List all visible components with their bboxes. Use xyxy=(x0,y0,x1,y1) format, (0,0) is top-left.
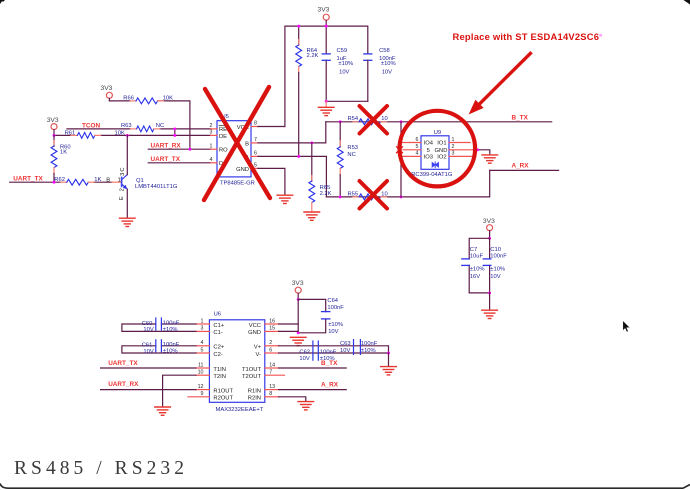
wire 3V3 vertical to GND row xyxy=(297,299,299,332)
junction C7/C10 bottom xyxy=(488,291,491,294)
wire R66 row xyxy=(109,101,189,149)
svg-text:V-: V- xyxy=(256,352,262,358)
svg-text:Q1: Q1 xyxy=(136,178,144,184)
junction A/R64 xyxy=(297,155,300,158)
wire R1IN xyxy=(279,389,347,391)
svg-text:NC: NC xyxy=(156,123,164,129)
svg-text:7: 7 xyxy=(254,137,257,143)
svg-text:C60: C60 xyxy=(142,321,153,327)
svg-text:±10%: ±10% xyxy=(338,61,353,67)
wire T1OUT xyxy=(279,367,347,369)
svg-text:15: 15 xyxy=(269,326,275,332)
stray junction dot right edge xyxy=(599,34,602,37)
svg-text:V+: V+ xyxy=(254,345,262,351)
svg-text:100nF: 100nF xyxy=(327,305,344,311)
wire R64 branch vertical xyxy=(298,26,300,44)
pin 9 U6 xyxy=(188,391,209,397)
svg-text:C2-: C2- xyxy=(213,352,222,358)
wire B row (pin7) xyxy=(258,122,326,143)
resistor R53 NC xyxy=(337,122,358,197)
wire R64 tail down to node A row xyxy=(298,73,300,157)
svg-text:A_RX: A_RX xyxy=(321,382,339,389)
svg-text:R63: R63 xyxy=(121,123,132,129)
svg-text:B_TX: B_TX xyxy=(512,114,529,121)
pin 6 U9 xyxy=(401,137,421,143)
svg-text:10uF: 10uF xyxy=(470,254,484,260)
pin 7 U5 xyxy=(251,137,258,143)
junction rail/ground xyxy=(325,100,328,103)
power 3V3 (R60/R61) xyxy=(47,117,59,136)
svg-text:R2IN: R2IN xyxy=(248,396,261,402)
ground under R65 xyxy=(304,212,320,220)
junction B_TX/U9 column xyxy=(400,120,403,123)
wire V- row xyxy=(279,352,389,354)
svg-text:R53: R53 xyxy=(347,145,358,151)
svg-text:IO1: IO1 xyxy=(437,141,446,147)
pin 13 U6 xyxy=(265,384,279,390)
svg-text:5: 5 xyxy=(427,148,430,154)
svg-text:B_TX: B_TX xyxy=(321,360,338,367)
markup red circle around U9 xyxy=(400,111,476,187)
svg-text:IO2: IO2 xyxy=(437,155,446,161)
wire Q1 collector riser xyxy=(126,135,128,174)
svg-text:R66: R66 xyxy=(123,96,134,102)
svg-text:C10: C10 xyxy=(490,247,501,253)
svg-text:3: 3 xyxy=(201,326,204,332)
svg-text:3V3: 3V3 xyxy=(47,117,59,124)
svg-text:10V: 10V xyxy=(143,349,153,355)
pin 1 U6 xyxy=(196,318,209,324)
wire V- to ground xyxy=(388,353,390,365)
svg-text:B: B xyxy=(245,141,249,147)
capacitor C61 100nF loop xyxy=(122,340,196,355)
wire C10 branch xyxy=(489,238,491,293)
wire C59 branch xyxy=(325,26,327,101)
wire A row (pin6) xyxy=(258,156,326,197)
svg-text:UART_TX: UART_TX xyxy=(108,360,138,367)
svg-text:A_RX: A_RX xyxy=(512,163,530,170)
junction C7/C10 top xyxy=(488,237,491,240)
svg-text:C61: C61 xyxy=(142,343,153,349)
pin 10 U6 xyxy=(196,370,209,376)
svg-text:1: 1 xyxy=(118,177,121,183)
svg-text:100nF: 100nF xyxy=(320,349,337,355)
svg-text:1: 1 xyxy=(201,318,204,324)
svg-text:GND: GND xyxy=(248,330,261,336)
svg-text:3V3: 3V3 xyxy=(101,85,113,92)
pin 5 U5 xyxy=(251,163,258,169)
wire UART_RX row xyxy=(148,148,210,150)
svg-text:UART_RX: UART_RX xyxy=(151,142,182,149)
svg-text:10V: 10V xyxy=(328,329,338,335)
svg-text:VCC: VCC xyxy=(249,323,261,329)
svg-text:2.2K: 2.2K xyxy=(307,53,319,59)
wire bottom rail C59-C58 xyxy=(326,100,368,102)
wire RE-DE tie xyxy=(174,129,176,136)
pin 2 U6 xyxy=(265,340,279,346)
svg-text:10: 10 xyxy=(381,116,387,122)
capacitor C60 100nF loop xyxy=(122,318,196,333)
wire UART_TX row to Q1 base xyxy=(10,181,112,183)
ground under U6 VCC rail xyxy=(290,337,306,345)
wire UART_RX to R1OUT xyxy=(101,389,196,391)
junction R55/R53 xyxy=(339,195,342,198)
svg-text:10V: 10V xyxy=(490,274,500,280)
pin 16 U6 xyxy=(265,318,279,324)
svg-text:T2IN: T2IN xyxy=(213,374,226,380)
wire U6 VCC to 3V3 xyxy=(279,323,299,325)
svg-text:IO3: IO3 xyxy=(424,155,433,161)
svg-text:10: 10 xyxy=(198,370,204,376)
ground near U9 xyxy=(482,155,498,163)
markup red arrow xyxy=(469,52,532,114)
svg-text:C1+: C1+ xyxy=(213,323,224,329)
svg-text:11: 11 xyxy=(198,362,204,368)
svg-text:2: 2 xyxy=(120,188,126,191)
svg-text:RS485 / RS232: RS485 / RS232 xyxy=(14,458,188,479)
junction tie RE xyxy=(173,127,176,130)
wire UART_TX to T1IN xyxy=(101,367,196,369)
capacitor C7 10uF xyxy=(462,247,485,280)
svg-text:C62: C62 xyxy=(299,349,310,355)
pin 1 U5 xyxy=(210,143,217,149)
pin 1 U9 xyxy=(449,137,470,143)
pin 2 U5 xyxy=(210,123,217,129)
svg-text:±10%: ±10% xyxy=(163,349,178,355)
wire DE row (R61) xyxy=(54,134,211,136)
svg-text:±10%: ±10% xyxy=(490,267,505,273)
wire UART_TX row to pin 4 xyxy=(148,162,210,164)
svg-text:TCON: TCON xyxy=(82,122,100,129)
node TCON / wire RE row xyxy=(67,122,211,129)
junction UART_TX/R60 xyxy=(53,181,56,184)
svg-text:3: 3 xyxy=(210,130,213,136)
svg-text:C1-: C1- xyxy=(213,330,222,336)
svg-text:T2OUT: T2OUT xyxy=(242,374,261,380)
pin 3 U6 xyxy=(196,326,209,332)
resistor R61 10K xyxy=(65,130,125,138)
corner mark top-right xyxy=(684,0,690,5)
wire B_TX row xyxy=(326,121,552,123)
junction U9 pin2 xyxy=(476,148,479,151)
svg-text:9: 9 xyxy=(201,391,204,397)
svg-text:10V: 10V xyxy=(382,69,392,75)
svg-text:UART_TX: UART_TX xyxy=(13,175,43,182)
svg-text:12: 12 xyxy=(198,384,204,390)
wire C7 branch xyxy=(469,238,489,293)
svg-text:3V3: 3V3 xyxy=(318,7,330,14)
svg-text:R1OUT: R1OUT xyxy=(213,388,233,394)
power 3V3 (R66 pull-up) xyxy=(101,85,113,101)
pin 6 U6 xyxy=(265,347,279,353)
svg-text:2: 2 xyxy=(269,340,272,346)
ground under C7/C10 xyxy=(482,310,498,318)
svg-text:5: 5 xyxy=(416,144,419,150)
svg-text:1K: 1K xyxy=(94,177,101,183)
capacitor C64 100nF xyxy=(322,298,345,335)
svg-text:10K: 10K xyxy=(115,130,125,136)
junction bus/C59 xyxy=(325,25,328,28)
resistor R55 10 xyxy=(348,191,388,200)
mouse cursor xyxy=(623,321,630,332)
svg-text:R55: R55 xyxy=(348,191,359,197)
svg-text:6: 6 xyxy=(254,151,257,157)
svg-text:C58: C58 xyxy=(379,48,390,54)
resistor R63 NC xyxy=(121,123,164,132)
svg-text:8: 8 xyxy=(254,121,257,127)
ground under U5 pin5 xyxy=(277,195,293,203)
junction DE/collector riser xyxy=(126,134,129,137)
svg-text:R2OUT: R2OUT xyxy=(213,396,233,402)
svg-text:10: 10 xyxy=(381,191,387,197)
svg-text:16: 16 xyxy=(269,318,275,324)
markup red X over U5 xyxy=(204,87,270,200)
svg-text:T1OUT: T1OUT xyxy=(242,367,261,373)
pin 5 U9 (no-connect) xyxy=(397,144,422,153)
svg-text:R62: R62 xyxy=(54,177,65,183)
svg-text:LMBT4401LT1G: LMBT4401LT1G xyxy=(135,184,178,190)
pin 12 U6 xyxy=(196,384,209,390)
wire C58 bottom to rail xyxy=(367,60,369,101)
svg-text:C63: C63 xyxy=(340,341,351,347)
wire 3V3 top bus xyxy=(285,26,368,126)
junction 3V3/C64 xyxy=(297,298,300,301)
resistor R66 10K xyxy=(123,96,173,104)
svg-text:TP8485E-GR: TP8485E-GR xyxy=(220,181,255,187)
junction bus/R64 xyxy=(297,25,300,28)
svg-text:±10%: ±10% xyxy=(163,327,178,333)
resistor R65 2.2K xyxy=(309,143,332,211)
svg-text:R54: R54 xyxy=(348,116,359,122)
svg-text:UART_TX: UART_TX xyxy=(151,156,181,163)
svg-text:10V: 10V xyxy=(143,327,153,333)
svg-text:10V: 10V xyxy=(340,348,350,354)
svg-text:13: 13 xyxy=(269,384,275,390)
svg-text:C7: C7 xyxy=(470,247,477,253)
svg-text:B: B xyxy=(106,178,110,184)
svg-text:C: C xyxy=(120,167,126,171)
wire C64 branch xyxy=(298,299,326,332)
svg-text:U9: U9 xyxy=(434,130,441,136)
svg-text:C64: C64 xyxy=(327,298,338,304)
junction GND row xyxy=(297,331,300,334)
pin 14 U6 xyxy=(265,362,279,368)
svg-text:5: 5 xyxy=(201,347,204,353)
svg-text:IO4: IO4 xyxy=(424,141,434,147)
wire R55 row xyxy=(326,170,489,197)
wire to ground C7/C10 xyxy=(489,293,491,309)
ground under T2IN xyxy=(155,407,171,415)
svg-text:±10%: ±10% xyxy=(381,61,396,67)
wire U5 GND to ground xyxy=(258,168,285,194)
op-amp U5 TP8485E-GR box xyxy=(217,114,255,187)
svg-text:T1IN: T1IN xyxy=(213,367,226,373)
svg-text:UART_RX: UART_RX xyxy=(108,381,139,388)
svg-text:100nF: 100nF xyxy=(163,320,180,326)
svg-text:10K: 10K xyxy=(163,96,173,102)
svg-text:3V3: 3V3 xyxy=(292,280,304,287)
svg-text:±10%: ±10% xyxy=(328,322,343,328)
svg-text:Replace with ST ESDA14V2SC6: Replace with ST ESDA14V2SC6 xyxy=(453,31,600,42)
wire U9 left column xyxy=(400,122,402,197)
pin 11 U6 xyxy=(196,362,209,368)
svg-text:10V: 10V xyxy=(339,69,349,75)
svg-text:R61: R61 xyxy=(65,130,76,136)
svg-text:1: 1 xyxy=(452,137,455,143)
pin 8 U5 xyxy=(251,121,258,127)
capacitor C63 100nF xyxy=(340,340,378,355)
pin 7 U6 xyxy=(265,370,285,376)
svg-text:GND: GND xyxy=(435,148,448,154)
transistor Q1 LMBT4401LT1G xyxy=(106,167,178,200)
svg-text:E: E xyxy=(119,196,125,200)
resistor R54 10 xyxy=(348,116,388,125)
pin 3 U9 xyxy=(449,151,475,157)
svg-text:4: 4 xyxy=(201,340,204,346)
svg-text:100nF: 100nF xyxy=(163,342,180,348)
svg-text:3V3: 3V3 xyxy=(483,218,495,225)
corner mark top-left xyxy=(0,0,5,4)
svg-text:8: 8 xyxy=(269,391,272,397)
svg-text:4: 4 xyxy=(416,151,419,157)
svg-text:1K: 1K xyxy=(60,150,67,156)
svg-text:C59: C59 xyxy=(337,48,348,54)
svg-text:4: 4 xyxy=(210,157,213,163)
pin 4 U9 xyxy=(401,151,421,157)
svg-text:3: 3 xyxy=(120,173,126,176)
svg-text:MAX3232EEAE+T: MAX3232EEAE+T xyxy=(216,407,264,413)
svg-text:2.2K: 2.2K xyxy=(320,191,332,197)
wire T2IN to ground xyxy=(163,375,196,406)
capacitor C10 100nF xyxy=(483,247,507,280)
pin 5 U6 xyxy=(196,347,209,353)
svg-text:5: 5 xyxy=(254,163,257,169)
junction R55/U9 column xyxy=(400,195,403,198)
pin 4 U5 xyxy=(210,157,217,163)
svg-text:7: 7 xyxy=(269,370,272,376)
pin 2 U9 xyxy=(449,144,478,150)
capacitor C62 100nF xyxy=(299,341,336,362)
svg-text:6: 6 xyxy=(416,137,419,143)
ground under R2IN xyxy=(298,402,314,410)
diode array U9 LRC399-04AT1G xyxy=(408,130,453,178)
junction B/R65 xyxy=(310,141,313,144)
svg-text:6: 6 xyxy=(269,347,272,353)
markup red X over R55 xyxy=(360,181,388,209)
svg-text:±10%: ±10% xyxy=(361,348,376,354)
power 3V3 (U6) xyxy=(292,280,304,299)
markup red X over R54 xyxy=(360,106,388,134)
wire A_RX row xyxy=(490,169,559,171)
ground under V- xyxy=(381,367,397,375)
svg-text:DE: DE xyxy=(219,134,227,140)
ground under C59 rail xyxy=(318,101,334,115)
junction B_TX/R53 xyxy=(339,120,342,123)
window bottom border xyxy=(0,484,690,489)
junction UART_RX/R66 xyxy=(188,148,191,151)
pin 3 U5 xyxy=(210,130,217,136)
op-amp U6 MAX3232EEAE+T box xyxy=(209,311,264,413)
svg-text:14: 14 xyxy=(269,362,275,368)
power 3V3 (C7/C10) xyxy=(483,218,495,239)
pin 4 U6 xyxy=(196,340,209,346)
svg-text:100nF: 100nF xyxy=(490,254,507,260)
svg-text:2: 2 xyxy=(210,123,213,129)
junction V-/C63 xyxy=(387,352,390,355)
svg-text:R1IN: R1IN xyxy=(248,388,261,394)
wire U5 VCC to bus xyxy=(258,126,285,128)
junction 3V3/R61/R60 xyxy=(53,134,56,137)
svg-text:3: 3 xyxy=(452,151,455,157)
schematic content xyxy=(10,7,559,416)
svg-text:R65: R65 xyxy=(320,185,331,191)
wire U6 GND row xyxy=(279,330,299,332)
wire Q1 emitter down xyxy=(126,189,128,217)
svg-text:RO: RO xyxy=(219,148,228,154)
svg-text:1: 1 xyxy=(210,143,213,149)
svg-text:±10%: ±10% xyxy=(470,267,485,273)
capacitor C59 1uF xyxy=(322,48,353,75)
resistor R60 1K xyxy=(51,135,71,182)
junction tie DE xyxy=(173,134,176,137)
resistor R64 2.2K xyxy=(296,40,319,73)
power 3V3 top (over C59) xyxy=(318,7,330,27)
resistor R62 1K xyxy=(54,177,101,185)
ground under Q1 xyxy=(120,218,136,226)
svg-text:U6: U6 xyxy=(214,311,221,317)
wire U9 pin2 to ground xyxy=(478,150,490,154)
wire R2IN to ground xyxy=(279,397,306,401)
svg-text:GND: GND xyxy=(236,167,249,173)
pin 8 U6 xyxy=(265,391,279,397)
capacitor C58 100nF xyxy=(364,48,396,75)
svg-text:100nF: 100nF xyxy=(361,341,378,347)
svg-text:16V: 16V xyxy=(470,274,480,280)
svg-text:C2+: C2+ xyxy=(213,345,224,351)
pin 15 U6 xyxy=(265,326,279,332)
wire V+ row xyxy=(279,346,389,353)
svg-text:NC: NC xyxy=(347,152,355,158)
svg-text:10V: 10V xyxy=(299,356,309,362)
pin 6 U5 xyxy=(251,151,258,157)
svg-text:2: 2 xyxy=(452,144,455,150)
